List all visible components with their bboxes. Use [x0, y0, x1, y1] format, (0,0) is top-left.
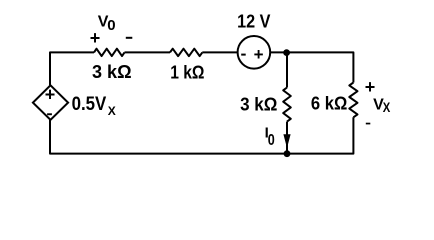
resistor R3 3 kΩ vertical zigzag — [283, 88, 291, 122]
svg-text:+: + — [254, 45, 264, 64]
svg-text:0.5V: 0.5V — [72, 94, 107, 115]
svg-text:12 V: 12 V — [237, 12, 270, 32]
I0 current arrowhead — [283, 134, 290, 148]
wire source to top-right corner and right vertical top — [270, 52, 353, 82]
wire between R1 and R2 — [125, 51, 171, 53]
voltage source V1 circle — [238, 36, 271, 69]
resistor R2 1 kΩ zigzag — [170, 49, 202, 56]
svg-text:+: + — [90, 28, 101, 48]
wire R2 to voltage source — [202, 51, 238, 53]
svg-text:0: 0 — [107, 17, 115, 34]
wire top-left run with left vertical — [50, 52, 94, 85]
label - polarity of V0 — [126, 37, 133, 39]
junction node top — [283, 49, 290, 56]
svg-text:0: 0 — [268, 132, 275, 149]
wire middle branch top — [286, 52, 288, 87]
dependent source D1 diamond — [33, 85, 68, 120]
svg-text:6 kΩ: 6 kΩ — [311, 93, 347, 113]
label - inside source — [241, 54, 246, 56]
svg-text:3 kΩ: 3 kΩ — [92, 62, 132, 82]
label - polarity of VX — [366, 123, 371, 125]
svg-text:+: + — [45, 85, 56, 105]
svg-text:+: + — [365, 77, 376, 97]
svg-text:3 kΩ: 3 kΩ — [240, 94, 277, 114]
label - inside diamond — [47, 113, 52, 115]
junction node bottom — [284, 150, 291, 157]
resistor R1 3 kΩ zigzag — [94, 49, 125, 56]
wire middle branch bottom — [286, 122, 288, 154]
svg-text:1 kΩ: 1 kΩ — [170, 62, 204, 82]
svg-text:X: X — [383, 99, 391, 115]
svg-text:X: X — [108, 104, 116, 118]
resistor R4 6 kΩ vertical zigzag — [349, 83, 357, 118]
wire right vertical bottom, bottom run, left vertical bottom — [50, 117, 353, 153]
